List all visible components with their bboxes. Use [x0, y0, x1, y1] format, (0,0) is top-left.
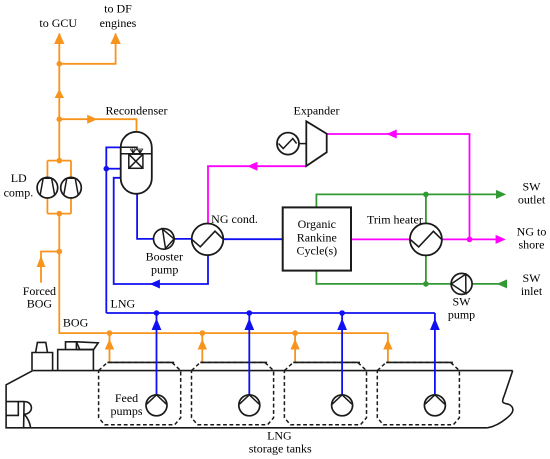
svg-text:Expander: Expander — [294, 103, 340, 117]
svg-text:Trim heater: Trim heater — [367, 213, 423, 227]
svg-text:pump: pump — [448, 308, 475, 322]
svg-text:BOG: BOG — [27, 296, 53, 310]
svg-text:Rankine: Rankine — [297, 230, 337, 244]
svg-text:Feed: Feed — [115, 391, 138, 405]
svg-text:NG to: NG to — [517, 224, 547, 238]
svg-text:LD: LD — [11, 171, 27, 185]
svg-text:SW: SW — [453, 295, 472, 309]
svg-text:to GCU: to GCU — [39, 16, 77, 30]
svg-text:SW: SW — [523, 180, 542, 194]
svg-text:Booster: Booster — [146, 250, 183, 264]
svg-text:inlet: inlet — [521, 284, 543, 298]
svg-text:Cycle(s): Cycle(s) — [296, 244, 337, 258]
svg-text:BOG: BOG — [63, 316, 89, 330]
svg-text:pumps: pumps — [110, 404, 142, 418]
svg-text:SW: SW — [523, 271, 542, 285]
svg-text:comp.: comp. — [4, 185, 34, 199]
svg-text:shore: shore — [519, 237, 545, 251]
svg-text:to DF: to DF — [104, 2, 132, 16]
svg-text:outlet: outlet — [518, 193, 546, 207]
svg-text:Recondenser: Recondenser — [106, 104, 168, 118]
svg-text:LNG: LNG — [111, 297, 136, 311]
svg-text:Organic: Organic — [298, 217, 336, 231]
svg-text:NG cond.: NG cond. — [211, 212, 258, 226]
svg-text:engines: engines — [100, 16, 137, 30]
svg-text:storage tanks: storage tanks — [249, 442, 312, 456]
svg-text:pump: pump — [151, 263, 178, 277]
